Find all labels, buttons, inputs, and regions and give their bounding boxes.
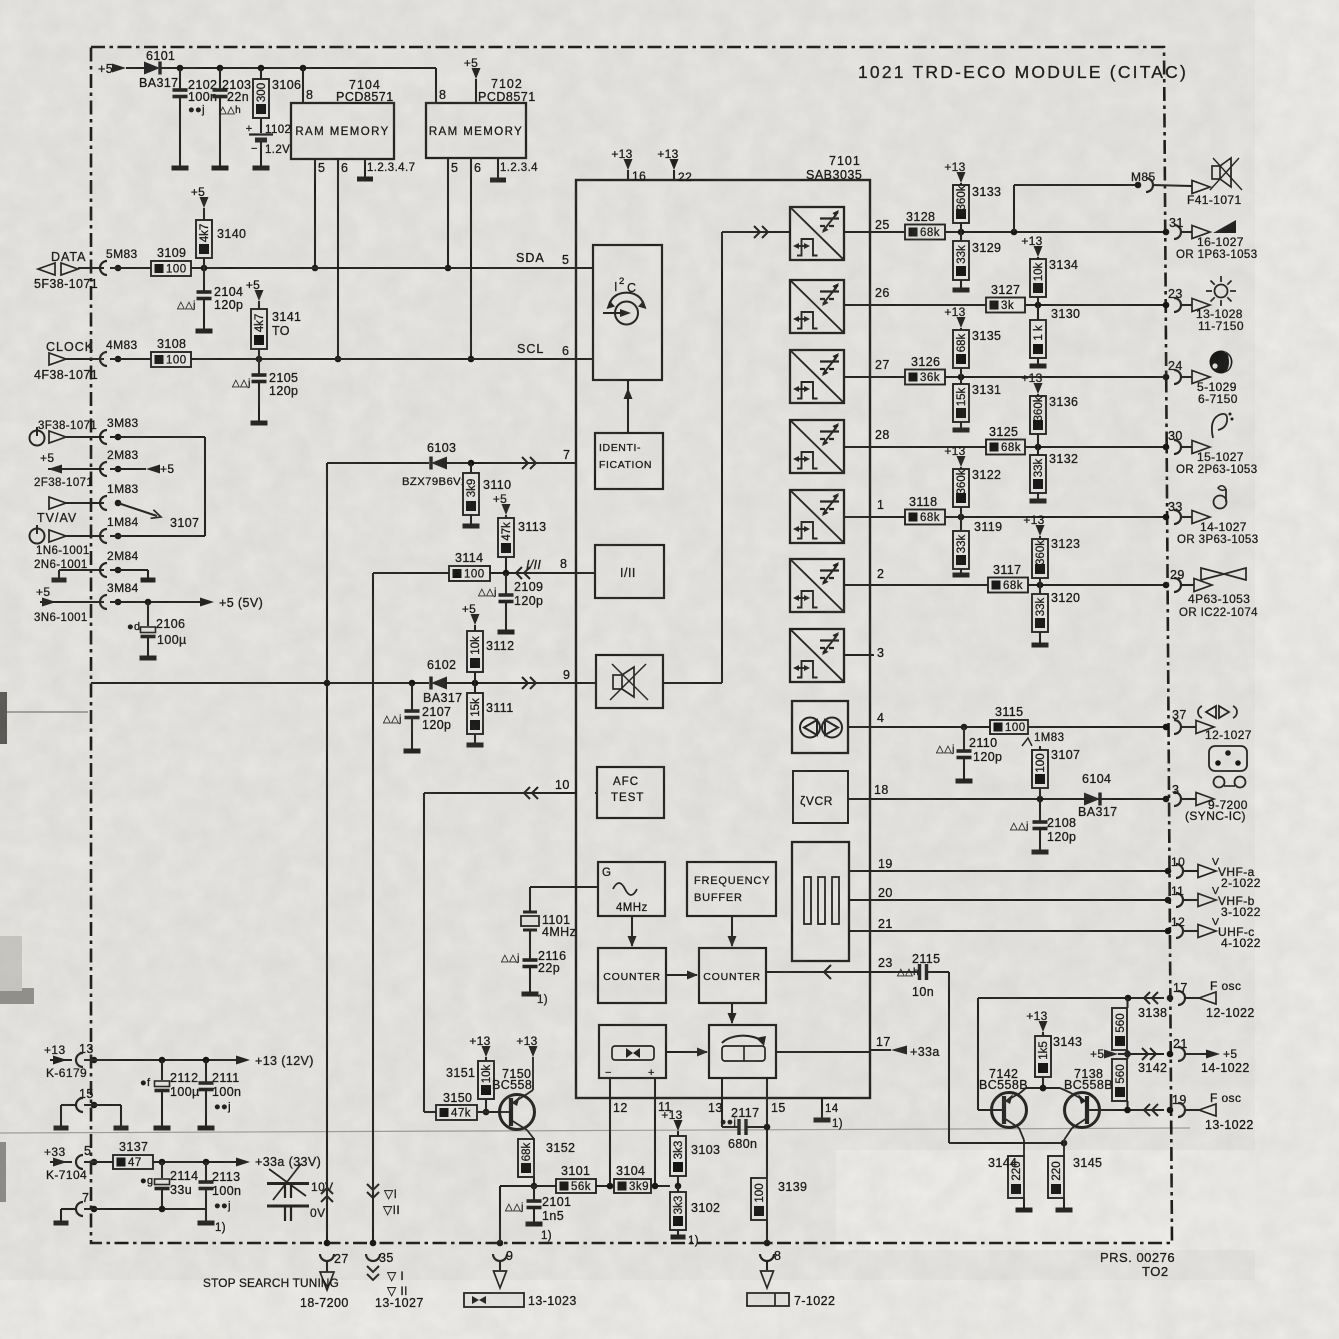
capacitor 2110 120p	[963, 727, 965, 751]
wire mute to pin 9	[576, 682, 596, 684]
capacitor 2102 100n	[179, 68, 181, 90]
arrow phase comp to tuning voltage	[666, 1051, 707, 1053]
diode 6103 BZX79B6V2	[431, 457, 447, 470]
FREQUENCY BUFFER block	[687, 862, 776, 916]
resistor 3134 10k	[1034, 246, 1043, 257]
connector 9 output	[497, 1240, 504, 1247]
resistor 3137 47	[84, 1161, 113, 1163]
power icon 3F38-1071	[30, 431, 45, 446]
capacitor 2104 120p	[203, 268, 205, 292]
resistor 3107 100	[1022, 738, 1032, 746]
resistor 3103 3k3	[674, 1120, 683, 1131]
arrow G to counter	[631, 916, 633, 946]
scan edge artifacts	[0, 692, 7, 744]
tuning DAC block 7	[790, 629, 844, 682]
resistor 3117 68k	[988, 578, 1028, 593]
wire +5 row 21	[1124, 1051, 1131, 1058]
tuning DAC block 3	[790, 350, 844, 403]
resistor 3135 68k	[957, 317, 966, 328]
resistor 3136 360k	[1034, 383, 1043, 394]
+13 supply pin 22	[670, 159, 679, 170]
resistor 3128 68k	[905, 225, 945, 240]
resistor 3150 47k	[424, 1111, 436, 1113]
resistor 3125 68k	[986, 440, 1025, 455]
pin 25 wire	[870, 231, 1164, 233]
capacitor 2109 120p	[505, 573, 507, 595]
resistor 3112 10k	[471, 614, 480, 625]
wire pin8 into I/II block	[576, 572, 595, 574]
pin 5 of 7102 wire to SDA	[447, 158, 449, 268]
tape icon	[1214, 777, 1225, 788]
connector 24	[1163, 374, 1170, 381]
diode 6102 BA317	[431, 677, 447, 690]
capacitor 2101 1n5	[533, 1186, 535, 1201]
pin 28 wire	[870, 446, 1164, 448]
resistor 3115 100	[990, 720, 1028, 734]
node line 56k row	[500, 1185, 556, 1187]
switch 3107 contact	[118, 503, 157, 516]
wire 3M83 row	[66, 436, 104, 438]
connector 3 sync	[1163, 796, 1170, 803]
block row wires inside box	[845, 231, 870, 233]
pin 5 of 7104 wire to SDA	[314, 159, 316, 268]
chevrons down on line 35	[367, 1184, 379, 1190]
arrow counter2 down	[731, 1003, 733, 1023]
resistor 3101 56k	[556, 1179, 596, 1193]
capacitor 2112 100u	[161, 1060, 163, 1080]
battery 1102 1.2V	[260, 118, 262, 133]
skip icon	[1206, 706, 1216, 718]
pin 14 ground	[821, 1098, 823, 1118]
tuning DAC block 5	[790, 490, 844, 543]
connector 31	[1163, 229, 1170, 236]
resistor 3113 47k	[502, 504, 511, 515]
capacitor 2106 100u	[147, 602, 149, 626]
capacitor 2116 22p	[529, 930, 531, 960]
capacitor 2114 33u	[161, 1162, 163, 1178]
resistor 3139 100	[751, 1178, 767, 1220]
wire pin8 row	[373, 572, 449, 574]
connector 37	[1163, 724, 1170, 731]
note icon	[1214, 496, 1227, 509]
resistor 3118 68k	[905, 510, 945, 525]
wire DATA/SDA	[78, 267, 104, 269]
arrow identification to I2C	[627, 380, 629, 433]
resistor 3122 360k	[957, 456, 966, 467]
wire SCL into I2C block	[576, 358, 593, 360]
horn icon	[1212, 414, 1227, 438]
wire CLOCK/SCL	[66, 358, 104, 360]
wire 3M84 +5 (5V)	[110, 601, 200, 603]
pins 1.2.3.4.7 of 7104 to ground	[364, 159, 366, 177]
resistor 3151 10k	[482, 1046, 491, 1057]
tuning DAC block 4	[790, 420, 844, 473]
tuning bus arrows into block 1	[754, 226, 760, 238]
band block wires 19 20 21	[849, 870, 1166, 872]
tuning voltage pins 13 15	[721, 1078, 723, 1127]
resistor 3145 220	[1048, 1156, 1064, 1198]
arrow counter1 to counter2	[666, 974, 697, 976]
emitter rail 7142 7138	[1026, 1087, 1060, 1089]
pins 1.2.3.4 of 7102 to ground	[497, 158, 499, 178]
resistor 3131 15k	[960, 377, 962, 384]
connector 23	[1163, 302, 1170, 309]
sun icon	[1215, 285, 1228, 298]
resistor 3114 100	[449, 566, 490, 581]
resistor 3109 100	[151, 261, 191, 276]
capacitor 2105 120p	[258, 359, 260, 375]
tuning DAC block 6	[790, 559, 844, 612]
connector 35	[370, 1240, 377, 1247]
wire pin10 AFC row	[424, 792, 597, 794]
IC 7104 PCD8571 RAM MEMORY	[291, 103, 394, 159]
capacitor 2111 100n	[205, 1060, 207, 1083]
fast tune block (arrows)	[792, 701, 848, 753]
connector 29	[1163, 582, 1170, 589]
AFC TEST block	[597, 767, 664, 818]
COUNTER block 2	[699, 948, 766, 1003]
+5 supply to 7102	[472, 68, 481, 79]
wire pin 17 +33a	[776, 1051, 870, 1053]
power icon 1N6-1001	[30, 529, 45, 544]
COUNTER block 1	[598, 948, 666, 1003]
wire diode to box pin 7	[447, 462, 576, 464]
pin 2 wire	[870, 584, 1164, 586]
capacitor 2107 120p	[411, 683, 413, 710]
IDENTIFICATION block	[595, 433, 663, 489]
pin 8 of 7102	[435, 68, 437, 103]
IC 7101 SAB3035 outline	[576, 180, 870, 1098]
IC 7102 PCD8571 RAM MEMORY	[426, 103, 526, 158]
resistor 3129 33k	[960, 232, 962, 241]
connector 4M83	[100, 352, 107, 366]
wire F osc 12-1022 to 7142 base	[977, 998, 979, 1110]
capacitor 2117 680n	[722, 1126, 738, 1128]
pin 18 wire	[870, 798, 1164, 800]
pin 27 wire	[870, 376, 1164, 378]
resistor 3127 3k	[986, 298, 1025, 313]
I2C interface block	[593, 245, 662, 380]
resistor 3102 3k3	[677, 1186, 679, 1192]
resistor 3120 33k	[1039, 585, 1041, 594]
resistor 3138 560	[1112, 1008, 1127, 1050]
connector 1M83 TV/AV	[49, 497, 66, 509]
wire pin23 to buffer	[948, 972, 950, 1143]
G 4MHz oscillator block	[598, 862, 665, 916]
resistor 3123 360k	[1036, 525, 1045, 536]
wire top +5 rail	[160, 67, 436, 69]
phase comparator block	[599, 1025, 666, 1078]
resistor 3142 560	[1112, 1059, 1127, 1101]
pin 6 of 7104 wire to SCL	[337, 159, 339, 359]
resistor 3130 1k	[1037, 305, 1039, 320]
resistor 3106 300	[260, 68, 262, 79]
resistor 3144 220	[1008, 1156, 1024, 1198]
connector 30	[1163, 444, 1170, 451]
tuning DAC block 2	[790, 280, 844, 333]
wire +13 rail	[84, 1059, 236, 1061]
connector 27 stop search tuning	[324, 1240, 331, 1247]
wire pin7 row left corner	[327, 462, 429, 464]
resistor 3133 360k	[957, 172, 966, 183]
resistor 3132 33k	[1037, 447, 1039, 455]
connector 8 output	[764, 1240, 771, 1247]
scan seam line	[0, 1128, 1190, 1133]
pin 4 wire	[870, 726, 1164, 728]
M85 mute output branch	[1013, 185, 1015, 232]
resistor 3111 15k	[474, 683, 476, 693]
+13 supply pin 16	[624, 159, 633, 170]
resistor 3110 3k9	[470, 463, 472, 473]
wire 2M83 to +5	[110, 468, 146, 470]
resistor 3141 4k7	[255, 290, 264, 301]
chevrons up on line 27	[321, 1196, 333, 1202]
mute block	[596, 655, 663, 708]
wire F osc 13-1022 to 7138 base	[1090, 1109, 1164, 1111]
tuning voltage block	[709, 1025, 776, 1078]
socket icon	[1209, 746, 1247, 771]
wire counter2 to pin 23	[766, 971, 918, 973]
varicap legend 0V	[267, 1205, 309, 1208]
tuning block pins 12 11	[609, 1078, 611, 1186]
diode 6101 BA317	[144, 62, 160, 75]
moon icon	[1210, 351, 1233, 374]
pin 8 of 7104	[302, 68, 304, 103]
resistor 3119 33k	[960, 517, 962, 531]
resistor 3108 100	[151, 352, 191, 367]
capacitor 2108 120p	[1039, 799, 1041, 822]
resistor 3104 3k9	[614, 1179, 651, 1193]
VCR block	[793, 771, 848, 823]
wire F osc 17 row	[978, 997, 1164, 999]
connector 5M83	[100, 261, 107, 275]
pin 26 wire	[870, 304, 1164, 306]
resistor 3143 1k5	[1039, 1021, 1048, 1032]
wire 6102 to box pin 9	[447, 682, 576, 684]
resistor 3140 4k7	[200, 197, 209, 208]
I/II block	[595, 545, 664, 598]
resistor 3152 68k	[518, 1139, 534, 1177]
capacitor 2113 100n	[205, 1162, 207, 1182]
diode 6104 BA317	[1084, 793, 1100, 806]
crystal 1101 4MHz	[530, 886, 598, 888]
bowtie icon	[1201, 568, 1246, 580]
varicap legend 10V	[267, 1182, 309, 1185]
speaker icon F41-1071	[1192, 181, 1210, 194]
pin 6 of 7102 wire to SCL	[470, 158, 472, 359]
capacitor 2115 10n	[918, 964, 921, 980]
connector 33	[1163, 514, 1170, 521]
band output block	[792, 842, 849, 961]
wire mute block to tuning bus	[663, 682, 722, 684]
connector 1M84	[49, 530, 66, 542]
wire pin10 into AFC TEST	[595, 792, 597, 794]
wire right bracket vertical	[204, 437, 206, 536]
wire pin9 mute row	[91, 682, 429, 684]
module border (dash-dot)	[91, 47, 1172, 1243]
wire +33a rail	[153, 1161, 236, 1163]
resistor 3126 36k	[905, 370, 945, 385]
tuning DAC block 1	[790, 207, 844, 260]
connector 3M83	[49, 431, 66, 443]
capacitor 2103 22n	[219, 68, 221, 90]
wire SDA into I2C block	[576, 267, 593, 269]
wire +5 to diode 6101	[126, 67, 145, 69]
arrow freq buffer to counter	[731, 916, 733, 946]
pin 1 wire	[870, 516, 1164, 518]
